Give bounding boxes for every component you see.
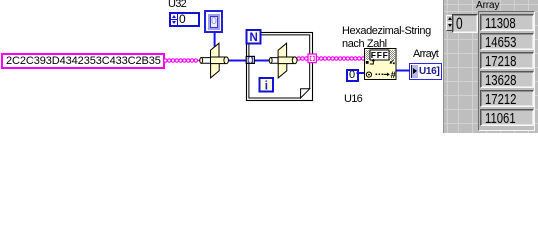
svg-text:N: N (249, 32, 257, 44)
array element 11308 (480, 14, 534, 31)
for loop border (inner, dog-ear corner cut) (249, 35, 310, 98)
indicator terminal [U16] (409, 63, 442, 80)
array element 11061 (480, 109, 534, 126)
string wire: constant to funnel 1 (164, 60, 201, 62)
wire: U16 constant to hex function (357, 72, 366, 74)
label Hexadezimal-String nach Zahl (342, 25, 431, 50)
for loop border (outer) (247, 33, 313, 101)
wires + loop + icons (SVG overlay) (0, 0, 538, 133)
numeric constant 0 (focused, lavender) (204, 10, 223, 33)
wire: left tunnel to funnel 2 (253, 60, 272, 62)
array elements frame (478, 11, 535, 131)
funnel icon 2 (inside loop) (269, 43, 297, 78)
wire: focused constant down to funnel 1 (214, 31, 216, 47)
string constant 2C2C393D4342353C433C2B35 (1, 53, 165, 69)
string wire: right tunnel to hex function (316, 58, 365, 60)
array index value box (452, 14, 478, 33)
svg-text:FFF: FFF (371, 50, 389, 60)
array element 17212 (480, 90, 534, 107)
svg-text:i: i (265, 80, 268, 92)
wire: hex function to [U16] indicator (396, 70, 410, 72)
array element 17218 (480, 52, 534, 69)
label U32 (168, 0, 186, 10)
loop left tunnel [] (246, 56, 254, 63)
numeric constant 0 (U16) (346, 69, 359, 82)
label Arrayt (413, 49, 438, 60)
label Array (476, 1, 499, 11)
i iteration terminal (260, 78, 274, 92)
loop right tunnel [] (string) (308, 54, 316, 63)
N count terminal (247, 30, 261, 44)
string wire: funnel 2 to right tunnel (297, 58, 309, 60)
svg-text:#: # (391, 70, 397, 81)
for loop page-curl fold (301, 89, 310, 98)
label U16 (344, 94, 362, 105)
wire: funnel 1 to loop left tunnel (228, 60, 248, 62)
array element 14653 (480, 33, 534, 50)
numeric control U32 (169, 12, 200, 27)
array element 13628 (480, 71, 534, 88)
array index control spin buttons (446, 15, 454, 24)
hex string to number icon (365, 49, 397, 82)
funnel icon 1 (outside loop) (200, 43, 229, 78)
front panel (gray Array panel background with grid) (443, 0, 538, 133)
